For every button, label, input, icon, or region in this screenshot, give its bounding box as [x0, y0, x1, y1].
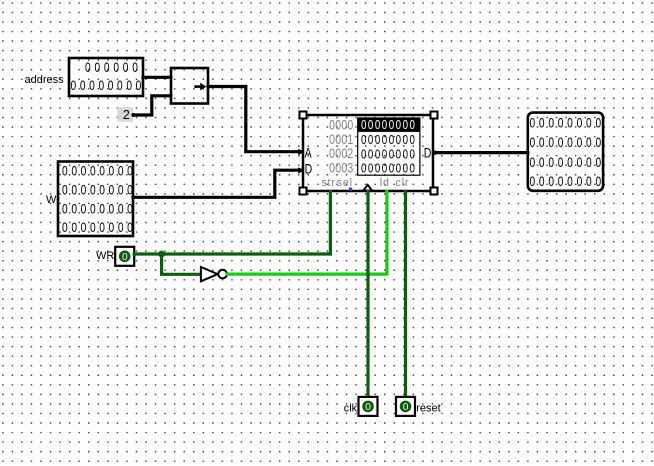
svg-text:00000000: 00000000 — [62, 201, 136, 217]
shifter U1 — [171, 68, 208, 104]
svg-text:00000000: 00000000 — [62, 220, 136, 236]
wire reset riser — [404, 192, 407, 397]
pin reset (1-bit input) — [396, 397, 441, 416]
svg-text:00000000: 00000000 — [71, 78, 145, 94]
pin W (32-bit input) — [58, 162, 136, 237]
svg-text:D: D — [424, 145, 432, 161]
svg-text:clr: clr — [396, 177, 410, 189]
svg-text:0000: 0000 — [329, 117, 353, 133]
RAM data column — [361, 119, 416, 176]
svg-text:W: W — [46, 194, 57, 206]
svg-text:0: 0 — [122, 252, 128, 263]
wire junction down to NOT input — [162, 254, 201, 274]
RAM label D in — [305, 161, 313, 177]
svg-text:000000: 000000 — [85, 59, 142, 75]
svg-text:00000000: 00000000 — [62, 163, 136, 179]
svg-text:00000000: 00000000 — [529, 134, 604, 150]
wire clk riser — [366, 192, 369, 397]
constant 2 (shift amount) — [118, 107, 136, 122]
svg-text:WR: WR — [96, 250, 114, 262]
svg-text:sel: sel — [337, 177, 353, 189]
svg-text:00000000: 00000000 — [361, 149, 416, 162]
pin address (14-bit input) — [69, 58, 145, 96]
probe P1 (32-bit output) — [528, 113, 605, 191]
svg-text:reset: reset — [416, 403, 440, 415]
svg-text:00000000: 00000000 — [361, 163, 416, 176]
wire WR to junction — [134, 252, 161, 255]
wire W to RAM D — [133, 170, 302, 197]
RAM label D out — [424, 145, 432, 161]
RAM sel floating dot — [349, 188, 352, 191]
wire str riser — [329, 192, 332, 255]
NOT gate G1 — [201, 267, 227, 281]
junction WR node — [158, 251, 165, 258]
svg-text:00000000: 00000000 — [529, 174, 604, 190]
pin clk (1-bit input) — [344, 397, 378, 416]
port arrow RAM A — [298, 149, 304, 155]
svg-text:D: D — [305, 161, 313, 177]
wire address to shifter — [143, 76, 171, 79]
svg-text:00000000: 00000000 — [529, 115, 604, 131]
RAM label A — [305, 145, 313, 161]
svg-text:0: 0 — [365, 402, 371, 413]
svg-text:00000000: 00000000 — [529, 154, 604, 170]
RAM selection handles — [300, 112, 438, 195]
wire RAM D to probe — [434, 151, 528, 154]
RAM U2 body — [303, 115, 433, 191]
label W — [46, 194, 57, 206]
wire constant 2 to shifter — [134, 96, 171, 115]
svg-text:00000000: 00000000 — [361, 134, 416, 147]
RAM south port labels str sel ld clr — [321, 177, 409, 189]
svg-text:address: address — [25, 74, 65, 86]
port arrow RAM D in — [298, 167, 304, 173]
pin WR (1-bit input) — [96, 247, 134, 266]
svg-text:0001: 0001 — [329, 132, 353, 148]
wire NOT out to ld — [227, 192, 387, 275]
svg-text:ld: ld — [380, 177, 390, 189]
svg-text:0002: 0002 — [329, 146, 353, 162]
wire shifter out to RAM A — [208, 87, 302, 152]
RAM address column — [329, 117, 353, 176]
svg-text:00000000: 00000000 — [361, 119, 416, 132]
svg-text:2: 2 — [123, 107, 130, 122]
svg-text:00000000: 00000000 — [62, 182, 136, 198]
svg-text:clk: clk — [344, 403, 358, 415]
label address — [25, 74, 65, 86]
svg-text:str: str — [321, 177, 335, 189]
svg-text:0003: 0003 — [329, 160, 353, 176]
wire junction to str corner — [162, 252, 331, 255]
RAM D out port — [432, 151, 436, 155]
svg-text:0: 0 — [403, 402, 409, 413]
svg-text:A: A — [305, 145, 313, 161]
RAM clock triangle — [363, 185, 372, 191]
